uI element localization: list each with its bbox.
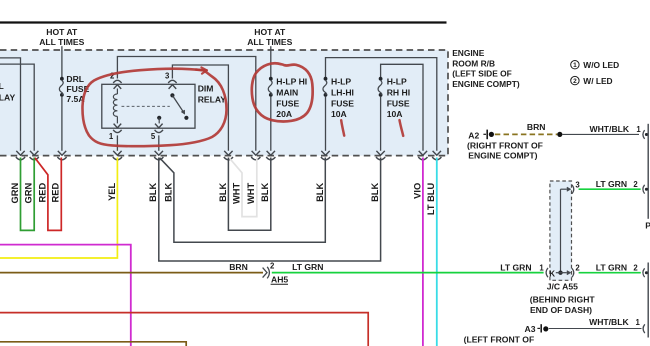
svg-text:ROOM R/B: ROOM R/B (452, 58, 495, 68)
svg-text:(LEFT FRONT OF: (LEFT FRONT OF (464, 334, 535, 344)
svg-text:GRN: GRN (24, 183, 34, 204)
svg-text:WHT: WHT (231, 182, 241, 203)
svg-text:1: 1 (636, 318, 641, 327)
svg-text:RED: RED (37, 183, 47, 203)
svg-text:DRL: DRL (66, 74, 84, 84)
svg-text:W/O LED: W/O LED (583, 60, 619, 70)
svg-text:1: 1 (539, 264, 544, 273)
svg-text:(BEHIND RIGHT: (BEHIND RIGHT (530, 294, 596, 304)
svg-text:2: 2 (633, 180, 638, 189)
svg-text:1: 1 (109, 132, 114, 141)
svg-text:WHT: WHT (246, 182, 256, 203)
svg-text:H-LP HI: H-LP HI (276, 77, 307, 87)
svg-text:2: 2 (575, 264, 580, 273)
svg-text:5: 5 (151, 132, 156, 141)
svg-text:HOT AT: HOT AT (254, 27, 286, 37)
svg-text:20A: 20A (276, 109, 292, 119)
svg-text:H-LP: H-LP (331, 77, 351, 87)
svg-text:HOT AT: HOT AT (46, 27, 78, 37)
svg-text:FUSE: FUSE (276, 98, 299, 108)
svg-text:BLK: BLK (315, 183, 325, 202)
svg-text:(LEFT SIDE OF: (LEFT SIDE OF (452, 69, 512, 79)
svg-text:LT GRN: LT GRN (292, 262, 323, 272)
svg-text:YEL: YEL (107, 182, 117, 200)
svg-text:ENGINE COMPT): ENGINE COMPT) (468, 150, 537, 160)
svg-text:A2: A2 (468, 130, 479, 140)
svg-text:ALL TIMES: ALL TIMES (39, 37, 84, 47)
svg-text:BRN: BRN (527, 122, 546, 132)
svg-text:BLK: BLK (260, 183, 270, 202)
svg-text:2: 2 (633, 264, 638, 273)
svg-text:3: 3 (575, 180, 580, 189)
svg-text:BLK: BLK (163, 183, 173, 202)
svg-text:LT GRN: LT GRN (596, 263, 627, 273)
svg-text:H-LP: H-LP (387, 77, 407, 87)
svg-text:RELAY: RELAY (198, 94, 227, 104)
svg-text:LT GRN: LT GRN (596, 179, 627, 189)
svg-text:1: 1 (636, 125, 641, 134)
svg-text:FUSE: FUSE (331, 98, 354, 108)
svg-text:W/ LED: W/ LED (583, 76, 612, 86)
svg-text:P: P (645, 220, 650, 230)
svg-text:END OF DASH): END OF DASH) (530, 305, 592, 315)
svg-text:WHT/BLK: WHT/BLK (589, 124, 629, 134)
svg-text:ENGINE COMPT): ENGINE COMPT) (452, 79, 520, 89)
svg-text:BLK: BLK (218, 183, 228, 202)
svg-text:GRN: GRN (10, 183, 20, 204)
svg-text:LH-HI: LH-HI (331, 87, 354, 97)
svg-text:3: 3 (165, 72, 170, 81)
svg-text:1: 1 (573, 62, 577, 69)
svg-text:ENGINE: ENGINE (452, 48, 485, 58)
svg-text:RED: RED (51, 183, 61, 203)
svg-text:DRL: DRL (0, 81, 4, 91)
svg-text:BRN: BRN (229, 262, 248, 272)
svg-text:RELAY: RELAY (0, 92, 15, 102)
svg-text:10A: 10A (331, 109, 347, 119)
svg-text:LT GRN: LT GRN (500, 263, 531, 273)
svg-text:AH5: AH5 (271, 274, 288, 284)
svg-text:BLK: BLK (370, 183, 380, 202)
svg-text:K: K (549, 269, 555, 278)
svg-text:FUSE: FUSE (387, 98, 410, 108)
svg-text:A3: A3 (525, 324, 536, 334)
svg-text:(RIGHT FRONT OF: (RIGHT FRONT OF (467, 141, 543, 151)
svg-text:10A: 10A (387, 109, 403, 119)
svg-text:J/C A55: J/C A55 (547, 282, 578, 292)
svg-text:LT BLU: LT BLU (426, 183, 436, 216)
svg-text:2: 2 (573, 78, 577, 85)
svg-text:VIO: VIO (412, 183, 422, 199)
svg-text:RH HI: RH HI (387, 87, 410, 97)
svg-text:2: 2 (270, 261, 275, 270)
svg-text:ALL TIMES: ALL TIMES (247, 37, 292, 47)
svg-text:DIM: DIM (198, 84, 214, 94)
svg-text:MAIN: MAIN (276, 87, 298, 97)
svg-text:BLK: BLK (148, 183, 158, 202)
svg-text:WHT/BLK: WHT/BLK (589, 317, 629, 327)
